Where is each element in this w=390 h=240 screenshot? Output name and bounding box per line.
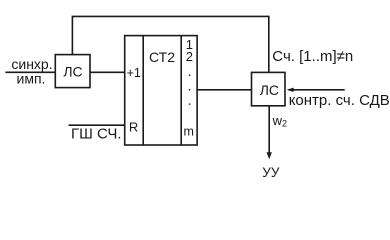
wire w2 output down [268,106,270,154]
counter CT2 box [125,36,197,145]
node dot out3 [189,103,191,105]
svg-text:имп.: имп. [17,71,46,87]
arrowhead w2 to UU [267,152,272,159]
wire GSh SCh input [69,124,125,126]
svg-text:R: R [129,119,138,134]
wire sync input [5,71,55,73]
svg-text:w2: w2 [272,113,287,129]
wire counter output to LS2 [197,89,251,91]
svg-text:СТ2: СТ2 [149,49,175,65]
block U2 LS right [252,72,286,105]
wire feedback top [72,16,268,72]
block U1 LS left [55,55,90,88]
svg-text:2: 2 [186,49,193,64]
counter divider right [180,36,182,145]
svg-text:ГШ СЧ.: ГШ СЧ. [71,125,122,142]
svg-text:ЛС: ЛС [260,82,279,98]
node dot out2 [189,89,191,91]
arrowhead control input [287,88,294,92]
svg-text:+1: +1 [127,66,141,80]
wire control input arrow [289,89,345,91]
svg-text:синхр.: синхр. [11,56,52,72]
svg-text:m: m [183,125,193,139]
svg-text:ЛС: ЛС [63,64,82,80]
wire LS1 to counter +1 [90,71,125,73]
svg-text:Сч. [1..m]≠n: Сч. [1..m]≠n [272,48,353,65]
counter divider left [142,36,144,145]
node dot out1 [189,74,191,76]
svg-text:УУ: УУ [262,165,280,180]
svg-text:контр. сч. СДВ: контр. сч. СДВ [289,92,390,109]
